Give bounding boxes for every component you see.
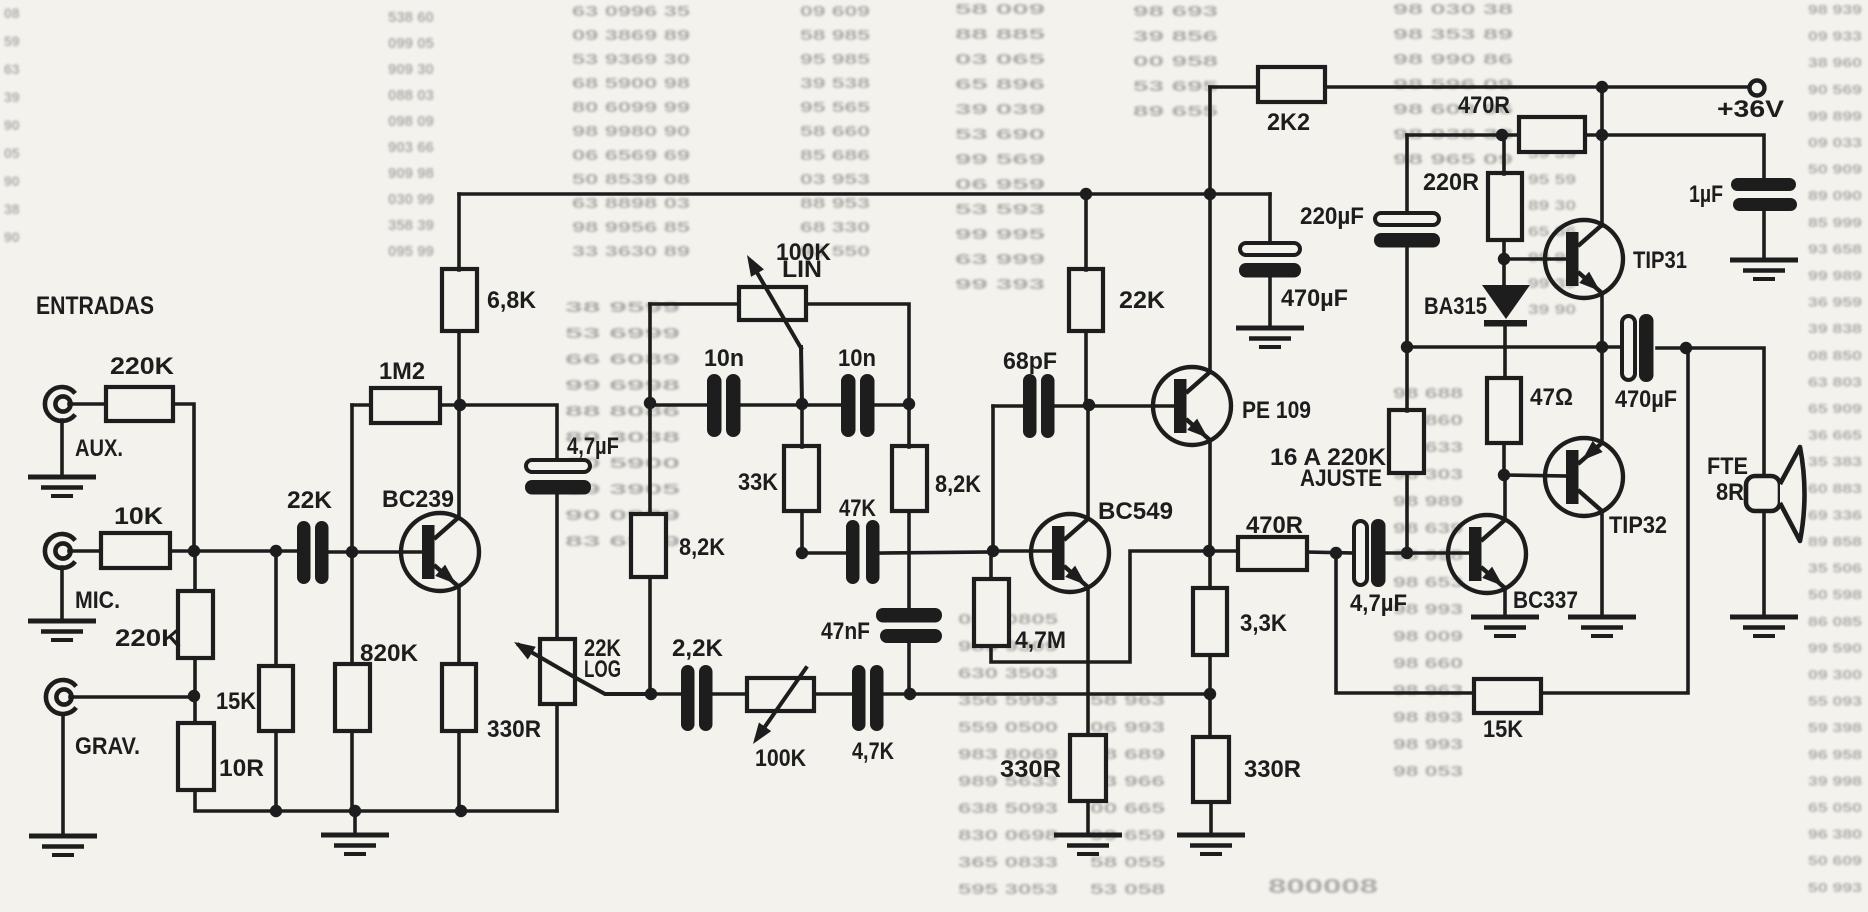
svg-text:88 885: 88 885 [955,26,1045,43]
svg-text:8,2K: 8,2K [935,471,982,498]
svg-text:4,7K: 4,7K [852,738,895,765]
svg-text:39 838: 39 838 [1808,321,1862,336]
svg-text:330R: 330R [487,716,541,743]
wire 1M2 left stub [352,403,371,407]
svg-text:4,7M: 4,7M [1015,627,1066,654]
svg-text:89 090: 89 090 [1808,188,1862,203]
wire 100K LIN left stub [650,302,739,306]
svg-text:86 085: 86 085 [1808,614,1862,629]
wire 10n to 8,2K node [874,403,909,407]
wire 4,7uF to volume pot [555,496,559,639]
svg-text:98 989: 98 989 [1393,493,1463,510]
svg-text:099 05: 099 05 [388,35,434,52]
svg-text:8R: 8R [1716,479,1744,506]
svg-text:1M2: 1M2 [379,358,425,385]
wire GRAV ground stem [61,714,65,835]
wire 4,7uF to BC337 base [1386,551,1470,555]
node tone top-left junction [644,397,656,409]
svg-text:85 999: 85 999 [1808,215,1862,230]
capacitor 2,2K [681,665,713,731]
svg-text:47Ω: 47Ω [1530,384,1573,411]
svg-text:65 909: 65 909 [1808,401,1862,416]
ground speaker [1730,617,1798,636]
svg-text:63: 63 [4,61,20,77]
svg-text:470R: 470R [1246,512,1303,539]
wire PE109 emitter [1208,440,1212,588]
capacitor 22K (coupling) [297,521,329,584]
potentiometer 16 A 220K AJUSTE [1389,410,1424,473]
svg-text:3,3K: 3,3K [1240,610,1288,637]
svg-text:10n: 10n [704,345,744,372]
wire 22K to BC549 collector [1086,331,1088,519]
wire 470R to 4,7uF [1307,552,1354,553]
svg-text:15K: 15K [216,688,257,715]
svg-text:98 009: 98 009 [1393,628,1463,645]
node PE109 emitter junction [1203,545,1215,557]
wire 100K LIN right stub [806,304,909,404]
wire 470uF to speaker corner [1657,348,1764,477]
svg-text:05: 05 [4,145,20,161]
wire 68pF to PE109 base [1054,404,1175,408]
svg-text:098 09: 098 09 [388,113,434,130]
svg-text:80 6099 99: 80 6099 99 [572,99,690,116]
wire 820K to rail [350,731,354,811]
svg-text:AJUSTE: AJUSTE [1300,465,1382,492]
svg-text:358 39: 358 39 [388,217,434,234]
svg-text:6,8K: 6,8K [487,287,537,314]
svg-text:95 985: 95 985 [800,51,870,68]
svg-text:98 653: 98 653 [1393,574,1463,591]
svg-text:LOG: LOG [584,656,621,683]
resistor 8,2K (right) [892,446,927,511]
svg-text:820K: 820K [360,640,419,667]
wire 220K to 10R [193,658,197,723]
capacitor 47nF [876,608,942,643]
node BC549 base junction [987,545,999,557]
svg-text:53 058: 53 058 [1090,881,1165,898]
svg-text:39 039: 39 039 [955,101,1045,118]
wire 470uF to ground [1268,278,1272,327]
svg-text:98 990 86: 98 990 86 [1393,51,1513,68]
svg-text:35 506: 35 506 [1808,561,1862,576]
svg-text:LIN: LIN [782,256,822,283]
wire 4,7M top stub [989,551,993,579]
capacitor 4,7uF (bootstrap) [525,460,591,495]
svg-text:630 3503: 630 3503 [958,665,1058,682]
svg-text:68pF: 68pF [1003,348,1057,375]
wire 6,8K to top rail [457,194,461,270]
svg-text:63 803: 63 803 [1808,374,1862,389]
transistor Q2 BC549 [1031,514,1109,592]
svg-text:33 3630 89: 33 3630 89 [572,243,690,260]
jack MIC [45,534,75,568]
wire 2,2K to 100K pot [713,692,747,696]
svg-text:903 66: 903 66 [388,139,434,156]
svg-text:47K: 47K [839,495,877,522]
wire speaker to ground [1762,511,1766,616]
svg-text:90: 90 [4,229,20,245]
wire TIP31 collector [1600,87,1604,226]
wire tone bottom bus left [650,692,681,696]
svg-text:66 6089: 66 6089 [565,351,680,368]
wire 330R to rail [457,731,461,811]
node output junction [1596,341,1608,353]
svg-text:50 909: 50 909 [1808,162,1862,177]
capacitor 470uF (output) [1622,314,1654,382]
wire BA315 to 47R [1503,326,1507,378]
wire TIP32 emitter to output node [1600,347,1604,443]
capacitor 10n (right) [841,374,875,437]
wire tone left riser [648,304,652,514]
svg-text:09 3869 89: 09 3869 89 [572,27,690,44]
svg-text:MIC.: MIC. [75,587,120,614]
wire 33K top [800,403,804,447]
svg-text:47nF: 47nF [821,618,870,645]
svg-text:BA315: BA315 [1424,293,1487,320]
svg-text:98 993: 98 993 [1393,736,1463,753]
node base/bias junction [346,546,358,558]
wire between 10n caps [741,403,841,407]
node TIP31 base junction [1498,253,1510,265]
svg-text:09 033: 09 033 [1808,135,1862,150]
wire 220R top stub [1502,135,1506,174]
svg-text:330R: 330R [1000,756,1061,783]
wire 8,2K right to 47nF [907,511,911,608]
svg-text:98 9980 90: 98 9980 90 [572,123,690,140]
jack GRAV [46,680,76,714]
svg-text:88 953: 88 953 [800,195,870,212]
svg-text:00 958: 00 958 [1133,53,1218,70]
wire 470uF supply stub [1268,194,1272,243]
svg-text:220µF: 220µF [1300,203,1364,230]
svg-text:10K: 10K [114,503,164,530]
resistor 220K (divider) [178,591,213,658]
svg-text:90: 90 [4,173,20,189]
svg-text:GRAV.: GRAV. [75,733,140,760]
wire AJUSTE top [1405,347,1409,411]
capacitor 1uF [1731,178,1797,211]
svg-text:96 958: 96 958 [1808,747,1862,762]
svg-text:98 963: 98 963 [1393,682,1463,699]
wire 47K to BC549 base node [881,552,993,553]
svg-text:95 59: 95 59 [1528,171,1576,187]
svg-text:55 093: 55 093 [1808,694,1862,709]
svg-text:39 90: 39 90 [1528,301,1576,317]
svg-text:50 993: 50 993 [1808,880,1862,895]
svg-text:89 655: 89 655 [1133,103,1218,120]
svg-text:BC337: BC337 [1513,587,1578,614]
svg-text:35 383: 35 383 [1808,454,1862,469]
resistor 220K (AUX) [106,387,173,421]
resistor 47R [1487,378,1521,443]
node 47nF bottom junction [904,688,916,700]
node MIC/AUX junction [188,545,200,557]
jack AUX [45,387,75,421]
capacitor 4,7uF (output coupling) [1354,519,1386,587]
capacitor 220uF [1374,213,1440,248]
svg-text:85 686: 85 686 [800,147,870,164]
resistor 470R (top) [1519,117,1585,152]
svg-text:220K: 220K [115,625,182,652]
svg-text:22K: 22K [287,487,333,514]
node BC337 collector junction [1498,469,1510,481]
transistor Q3 PE109 [1153,367,1231,445]
ground 470uF supply [1236,328,1304,347]
transistor Q6 BC337 [1448,515,1526,593]
svg-text:53 695: 53 695 [1133,78,1218,95]
svg-text:AUX.: AUX. [75,435,123,462]
resistor 10K [101,533,170,568]
svg-text:36 959: 36 959 [1808,295,1862,310]
ground PE109 330R [1177,835,1245,854]
svg-text:59 398: 59 398 [1808,720,1862,735]
capacitor 470uF (supply) [1239,243,1301,278]
svg-text:830 0698: 830 0698 [958,827,1058,844]
svg-text:095 99: 095 99 [388,243,434,260]
svg-text:99 989: 99 989 [1808,268,1862,283]
wire 220R to TIP31 base node [1502,240,1506,284]
wire 68pF riser [991,406,995,551]
wire 4,7M feedback loop [991,551,1208,662]
svg-text:96 380: 96 380 [1808,827,1862,842]
svg-text:220K: 220K [110,353,175,380]
svg-text:595 3053: 595 3053 [958,881,1058,898]
svg-text:38 9599: 38 9599 [565,299,680,316]
node +36V dropper junction [1596,81,1608,93]
node feedback junction [1330,547,1342,559]
wire 8,2K left bottom [648,577,652,694]
node bottom bus right junction [1204,688,1216,700]
svg-text:365 0833: 365 0833 [958,854,1058,871]
svg-text:53 690: 53 690 [955,126,1045,143]
capacitor 47K [846,520,880,584]
svg-text:15K: 15K [1483,716,1524,743]
svg-text:58 009: 58 009 [955,1,1045,18]
svg-text:63 8898 03: 63 8898 03 [572,195,690,212]
wire TIP32 base stub [1504,475,1567,476]
svg-text:58 055: 58 055 [1090,854,1165,871]
svg-text:99 590: 99 590 [1808,640,1862,655]
wire 2K2 riser [1208,87,1212,194]
svg-text:98 660: 98 660 [1393,655,1463,672]
svg-text:06 6569 69: 06 6569 69 [572,147,690,164]
wire 1M2 to collector node [440,405,557,459]
ground BC549 330R [1054,835,1122,854]
svg-text:TIP32: TIP32 [1609,512,1667,539]
wire TIP31 base stub [1504,257,1567,261]
resistor 330R (3,3K) [1193,737,1229,802]
wire 8,2K right top [907,404,911,447]
svg-text:89 858: 89 858 [1808,534,1862,549]
svg-text:53 9369 30: 53 9369 30 [572,51,690,68]
wire MIC node down to 220K [193,551,197,591]
ground 1uF [1730,260,1798,279]
node 15K rail junction [270,805,282,817]
ground AUX [28,477,96,496]
svg-text:030 99: 030 99 [388,191,434,208]
svg-text:03 065: 03 065 [955,51,1045,68]
svg-text:50 8539 08: 50 8539 08 [572,171,690,188]
svg-text:98 030 38: 98 030 38 [1393,1,1513,18]
node collector rail junction [1596,129,1608,141]
svg-text:4,7µF: 4,7µF [1350,590,1407,617]
resistor 22K (PE109 stage) [1069,269,1103,331]
resistor 3,3K [1193,588,1227,655]
svg-text:09 933: 09 933 [1808,29,1862,44]
svg-text:39 998: 39 998 [1808,773,1862,788]
svg-text:08 850: 08 850 [1808,348,1862,363]
svg-text:330R: 330R [1244,756,1301,783]
transistor Q4 TIP31 [1545,220,1623,298]
potentiometer 22K LOG [540,639,575,704]
svg-text:98 353 89: 98 353 89 [1393,26,1513,43]
wire 100K pot to 4,7K [814,692,852,696]
svg-text:38 960: 38 960 [1808,55,1862,70]
wire BC239 collector [457,331,461,518]
svg-text:06 959: 06 959 [955,176,1045,193]
wire BC239 emitter to 330R [457,587,461,664]
capacitor 68pF [1023,374,1055,438]
svg-text:98 939: 98 939 [1808,2,1862,17]
node tone mid junction [796,547,808,559]
wire 220K to MIC node [173,404,194,551]
resistor 15K [259,666,293,731]
wire GRAV jack to divider [70,695,194,699]
svg-text:63 999: 63 999 [955,251,1045,268]
capacitor 4,7K [852,665,884,731]
node 22K top junction [1080,188,1092,200]
wire 15K branch [274,551,278,666]
svg-text:800008: 800008 [1268,876,1378,898]
svg-text:38: 38 [4,201,20,217]
svg-text:559 0500: 559 0500 [958,719,1058,736]
svg-text:90: 90 [4,117,20,133]
svg-text:59: 59 [4,33,20,49]
svg-text:FTE: FTE [1707,453,1748,480]
svg-text:99 393: 99 393 [955,276,1045,293]
svg-text:09 300: 09 300 [1808,667,1862,682]
svg-text:58 660: 58 660 [800,123,870,140]
svg-text:538 60: 538 60 [388,9,434,26]
svg-text:98 693: 98 693 [1133,3,1218,20]
svg-text:53 593: 53 593 [955,201,1045,218]
wire BC337 emitter to ground [1503,588,1507,616]
transistor Q1 BC239 [401,513,479,591]
svg-text:PE 109: PE 109 [1242,397,1311,424]
wire main ground stem [353,811,357,834]
wire 330R to ground [1209,802,1213,834]
ground BC337 [1471,617,1539,636]
svg-text:2,2K: 2,2K [672,635,724,662]
transistor Q5 TIP32 (PNP) [1545,438,1623,516]
node collector/feedback junction [454,399,466,411]
resistor 8,2K (left) [631,514,666,577]
speaker FTE 8R [1746,476,1780,511]
svg-text:39: 39 [4,89,20,105]
wire pot to ground rail [555,704,559,811]
wire 33K bottom [800,511,804,553]
wire tone bottom bus right [884,692,1211,696]
svg-text:39 856: 39 856 [1133,28,1218,45]
ground TIP32 [1568,617,1636,636]
resistor 4,7M [974,579,1009,646]
resistor 15K (feedback) [1474,679,1541,713]
svg-text:TIP31: TIP31 [1633,247,1687,274]
svg-text:93 658: 93 658 [1808,241,1862,256]
wire 470R to 1uF corner [1585,135,1764,178]
svg-text:99 6998: 99 6998 [565,377,680,394]
svg-text:53 6999: 53 6999 [565,325,680,342]
wire TIP31 emitter to output node [1600,293,1604,347]
wire AUX ground stem [60,420,64,476]
node 15K junction [270,545,282,557]
terminal +36V [1750,81,1765,96]
svg-text:68 5900 98: 68 5900 98 [572,75,690,92]
wire MIC ground stem [60,567,64,620]
svg-text:60 883: 60 883 [1808,481,1862,496]
node 220R junction [1496,129,1508,141]
wire PE109 emitter to 470R [1209,549,1238,553]
svg-text:36 665: 36 665 [1808,428,1862,443]
svg-text:03 953: 03 953 [800,171,870,188]
svg-text:909 30: 909 30 [388,61,434,78]
svg-text:088 03: 088 03 [388,87,434,104]
wire 10K to 22K coupling cap [170,549,298,553]
svg-text:65 050: 65 050 [1808,800,1862,815]
wire 220uF bottom to output node [1405,248,1409,347]
svg-text:638 5093: 638 5093 [958,800,1058,817]
svg-text:90 569: 90 569 [1808,82,1862,97]
svg-text:470µF: 470µF [1281,285,1348,312]
node AJUSTE bottom junction [1401,547,1413,559]
wire 1uF to ground [1762,211,1766,259]
svg-text:95 565: 95 565 [800,99,870,116]
wire mid bus to 47K [802,551,846,555]
potentiometer 100K (bottom) [747,678,814,711]
svg-text:4,7µF: 4,7µF [567,433,619,460]
svg-text:99 899: 99 899 [1808,108,1862,123]
node tone bottom-left junction [645,688,657,700]
wire AUX jack to 220K [69,402,106,406]
svg-text:39 538: 39 538 [800,75,870,92]
svg-text:63 0996 35: 63 0996 35 [572,3,690,20]
svg-text:08: 08 [4,5,20,21]
resistor 330R (BC239) [442,664,476,731]
wire rail to 2K2 [1210,85,1258,89]
svg-text:99 995: 99 995 [955,226,1045,243]
node wiper junction [796,398,808,410]
svg-text:98 596 09: 98 596 09 [1393,76,1513,93]
wire 68pF top stub [993,404,1023,408]
svg-text:1µF: 1µF [1689,181,1723,208]
resistor 10R [178,723,214,790]
svg-text:22K: 22K [1119,287,1166,314]
svg-text:50 609: 50 609 [1808,853,1862,868]
svg-text:ENTRADAS: ENTRADAS [36,292,154,320]
svg-text:BC549: BC549 [1098,498,1173,525]
svg-text:98 965 09: 98 965 09 [1393,151,1513,168]
wire 10R to ground rail [195,790,557,811]
node ground rail junction [349,805,361,817]
svg-text:470µF: 470µF [1615,386,1677,413]
resistor 2K2 [1258,67,1325,102]
wire output node bus [1407,345,1622,349]
svg-text:98 9956 85: 98 9956 85 [572,219,690,236]
wire MIC jack to 10K [69,549,101,553]
svg-text:69 336: 69 336 [1808,507,1862,522]
svg-text:89 30: 89 30 [1528,197,1576,213]
svg-text:+36V: +36V [1717,96,1784,123]
